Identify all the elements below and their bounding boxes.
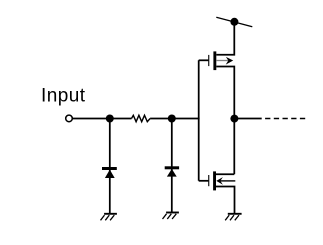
node: junction dot at diode D2 tap: [168, 115, 176, 123]
wire: Q2 bulk lead with arrow (points left): [220, 180, 236, 182]
wire: gate lead of Q1: [199, 59, 209, 61]
ground (below Q2): [225, 214, 241, 221]
wire: Q1 drain lead (top): [216, 22, 234, 55]
wire: Q1 source lead (bottom): [216, 67, 234, 119]
wire: input terminal to resistor: [72, 118, 131, 120]
ground (below D1): [101, 214, 117, 221]
node: output dot: [230, 115, 238, 123]
node: junction dot at diode D1 tap: [106, 115, 114, 123]
transistor Q2 (NMOS, bottom): [208, 171, 216, 190]
wire: output solid segment: [234, 118, 261, 120]
wire: resistor to gate line: [150, 118, 200, 120]
wire: Q2 source lead (bottom): [216, 187, 235, 214]
wire: output dashed continuation: [265, 118, 305, 120]
svg-text:Input: Input: [41, 86, 86, 107]
wire: D2 vertical: [171, 119, 173, 213]
node: supply dot: [230, 18, 238, 26]
wire: gate lead of Q2: [199, 180, 209, 182]
wire: Q2 drain lead (top): [216, 173, 234, 175]
diode D1 (anode down, cathode bar up): [102, 167, 117, 178]
transistor Q1 (PMOS, top): [208, 51, 216, 70]
diode D2 (anode down, cathode bar up): [165, 166, 179, 176]
ground (below D2): [163, 213, 179, 220]
wire: slanted supply rail: [216, 17, 252, 27]
input terminal circle: [66, 115, 73, 122]
wire: Q1 bulk lead with arrow (points right): [216, 60, 230, 62]
wire: Q2 drain vertical (output to Q2): [233, 119, 235, 175]
resistor R1: [132, 115, 151, 121]
wire: D1 vertical: [109, 119, 111, 214]
wire: gate bus vertical: [198, 60, 200, 181]
